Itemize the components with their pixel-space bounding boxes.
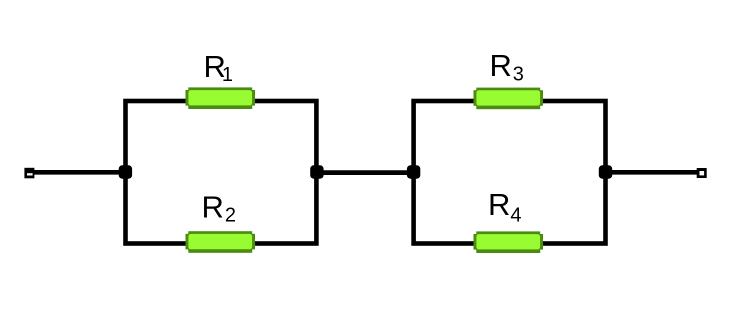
wire: loop 2 (parallel block R3/R4) — [414, 101, 606, 244]
wire: node D to right terminal — [605, 170, 701, 175]
left terminal — [24, 168, 34, 179]
wire: loop 1 (parallel block R1/R2) — [126, 101, 317, 244]
wire: node B to node C (middle link) — [316, 170, 414, 175]
wire: left terminal to node A — [30, 170, 126, 175]
resistor R1 — [186, 87, 256, 109]
node A (junction dot) — [119, 165, 132, 178]
node C (junction dot) — [407, 165, 420, 178]
right terminal — [697, 168, 707, 178]
node D (junction dot) — [599, 165, 612, 178]
node B (junction dot) — [310, 165, 323, 178]
resistor R2 — [186, 231, 256, 253]
resistor R4 — [474, 231, 544, 253]
resistor R3 — [474, 88, 544, 110]
